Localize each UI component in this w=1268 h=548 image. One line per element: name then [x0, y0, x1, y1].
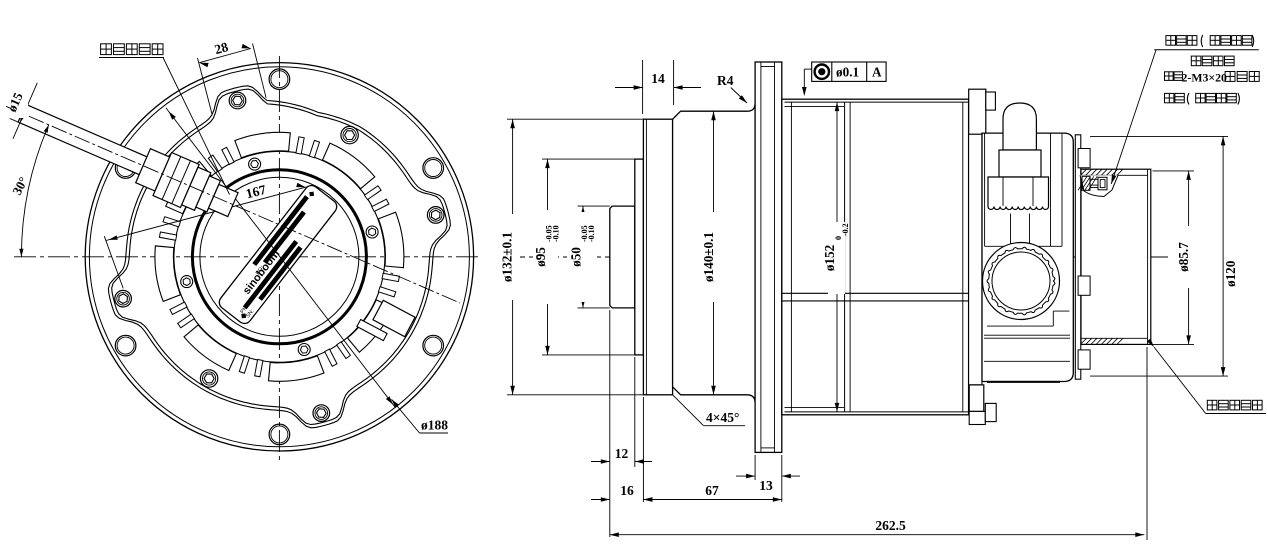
dimension o152	[836, 102, 838, 412]
svg-text:ø140±0.1: ø140±0.1	[701, 232, 716, 282]
feature control frame o0.1 A	[812, 62, 886, 81]
cylinder o140	[673, 103, 756, 403]
dimension 28	[198, 58, 213, 114]
svg-text:ø85.7: ø85.7	[1176, 242, 1191, 272]
bolt hole 6	[423, 335, 444, 356]
brake cover scalloped contour inner	[112, 89, 447, 424]
body section band	[782, 292, 969, 294]
svg-text:A: A	[872, 65, 882, 80]
brake cover scalloped contour outer	[108, 86, 450, 428]
label cable lead-out	[101, 44, 112, 55]
shaft o50	[610, 206, 635, 308]
connector knurled nut	[988, 177, 1049, 210]
dimension 16	[642, 397, 644, 502]
bolt hole 2	[269, 69, 290, 90]
svg-text:16: 16	[620, 483, 634, 498]
cable gland rings	[136, 149, 170, 191]
rotor hex screw 1	[341, 126, 358, 143]
svg-text:262.5: 262.5	[875, 518, 906, 533]
bolt hole 4	[115, 335, 136, 356]
dimension o120	[1090, 135, 1228, 137]
vertical centerline left view	[278, 56, 280, 462]
bolt hole 1	[423, 158, 444, 179]
label 4x45	[673, 395, 704, 426]
adapter section	[969, 133, 982, 385]
bolt hole 3	[115, 158, 136, 179]
svg-text:2-M3×20: 2-M3×20	[1182, 71, 1227, 85]
small hex screw 3	[181, 276, 193, 288]
brake pad segments	[155, 132, 404, 381]
svg-text:-0.10: -0.10	[552, 225, 561, 242]
svg-text:ø95: ø95	[533, 247, 548, 267]
boss o95	[635, 159, 644, 355]
svg-text:ø152: ø152	[822, 244, 837, 271]
brake connector tube	[1003, 103, 1036, 150]
flange disc o132	[643, 119, 672, 395]
svg-text:ø188: ø188	[421, 418, 448, 433]
svg-text:4×45°: 4×45°	[706, 410, 739, 425]
cover hex screw 2	[229, 92, 246, 109]
bottom tab and feet	[969, 385, 984, 412]
connector shank lines	[1010, 214, 1012, 247]
brake cover cylinder	[1081, 169, 1151, 344]
plate tabs	[1078, 149, 1090, 168]
big disc (wheel)	[755, 62, 782, 452]
motor body	[782, 99, 969, 415]
label brake cover	[1207, 400, 1217, 410]
dimension o95	[542, 158, 635, 160]
rotor hex screw 2	[200, 370, 217, 387]
svg-text:ø0.1: ø0.1	[836, 65, 859, 80]
svg-text:ø50: ø50	[569, 247, 584, 267]
cover hex screw 4	[313, 405, 330, 422]
leader to release screw	[1111, 50, 1156, 184]
svg-text:14: 14	[651, 71, 665, 86]
inner circle r79	[200, 177, 359, 336]
small hex screw 4	[298, 344, 310, 356]
label release screws	[1165, 93, 1174, 102]
outer flange circle	[85, 63, 473, 451]
cover hex screw 1	[427, 207, 444, 224]
svg-text:-0.2: -0.2	[841, 223, 850, 236]
cover hex screw 3	[115, 290, 132, 307]
flange circle o188	[89, 67, 469, 447]
cable axis centerline	[6, 106, 460, 303]
svg-text:-0.10: -0.10	[587, 225, 596, 242]
svg-text:ø132±0.1: ø132±0.1	[500, 232, 515, 282]
release screw	[1080, 175, 1118, 196]
nameplate	[216, 183, 339, 327]
dimension o85.7	[1153, 170, 1195, 172]
svg-text:67: 67	[705, 483, 719, 498]
svg-text:R4: R4	[717, 73, 734, 88]
svg-text:12: 12	[615, 446, 629, 461]
splined hub	[983, 243, 1060, 320]
radial fins	[159, 137, 399, 377]
fin ring inner circle	[174, 151, 385, 362]
cable tube	[18, 104, 151, 176]
label brake manual release	[1166, 36, 1176, 46]
right view horizontal centerline	[503, 256, 1168, 258]
dimension o140	[713, 111, 715, 395]
dimension 67	[781, 455, 783, 502]
block internal steps	[987, 325, 1053, 327]
dimension o188 diagonal line	[166, 108, 396, 408]
terminal box	[357, 295, 415, 348]
brake housing block	[982, 133, 1073, 381]
top tab	[969, 89, 986, 134]
rear plate	[1075, 135, 1081, 379]
dimension o188	[392, 399, 420, 433]
dimension o132	[507, 118, 643, 120]
small hex screw 2	[249, 158, 261, 170]
bolt hole 5	[269, 424, 290, 445]
label screws	[1165, 72, 1174, 81]
svg-text:ø120: ø120	[1223, 260, 1238, 287]
dimension 13	[754, 455, 756, 480]
dimension o15	[10, 119, 18, 123]
inner bore thick circle	[192, 170, 366, 344]
svg-text:13: 13	[759, 478, 773, 493]
horizontal centerline left view	[14, 256, 478, 258]
dimension 167	[106, 187, 308, 241]
dimension 30 degree arc	[21, 125, 48, 257]
dimension 12	[609, 310, 611, 537]
small hex screw 1	[366, 226, 378, 238]
label power-off brake	[1191, 56, 1201, 66]
dimension 262.5	[1146, 347, 1148, 540]
dimension o50	[578, 205, 610, 207]
section hatch top	[1081, 169, 1123, 175]
dimension 14	[642, 60, 644, 114]
